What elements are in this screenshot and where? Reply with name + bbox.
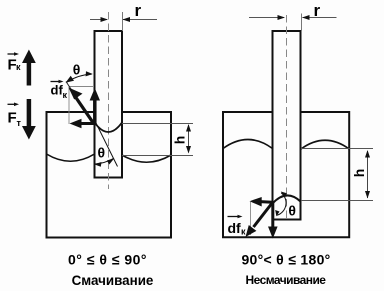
svg-text:r: r [314,1,321,20]
capillary tube (right) [273,31,301,220]
svg-text:Несмачивание: Несмачивание [246,273,327,287]
vertical component arrow (right, down along tube wall) [271,203,274,228]
h top extension line (right) [301,148,373,150]
tube centerline (right, dashed) [286,15,288,218]
svg-text:df: df [228,220,242,236]
r dimension line right segment (right) [303,17,337,19]
r dimension line left segment (right) [249,17,284,19]
h dimension line (left) [188,125,190,153]
lower theta angle arc (left) [95,159,113,164]
svg-text:F: F [8,110,17,127]
svg-text:к: к [241,227,246,237]
theta angle arc (right) [277,193,286,216]
h dimension line (right) [367,151,369,198]
h bottom extension line (right) [301,200,373,202]
svg-text:0° ≤ θ ≤ 90°: 0° ≤ θ ≤ 90° [68,251,147,267]
water surface arc left-of-tube (left vessel) [47,154,95,161]
svg-text:90°< θ ≤ 180°: 90°< θ ≤ 180° [241,251,330,267]
vector df_k (right, thick diagonal down-left arrow) [254,203,273,228]
upper theta angle arc (left) [67,74,92,82]
component rectangle construction lines (left) [69,86,94,88]
r dimension line left segment [90,19,107,21]
df_k extension thin line (left) [66,82,94,125]
svg-text:к: к [63,90,68,100]
svg-text:θ: θ [73,61,81,77]
component construction line (right, vertical) [250,202,252,235]
svg-text:к: к [16,62,21,72]
vessel (left container) [47,112,172,238]
vector F_t (big down arrow) [27,99,32,126]
svg-text:Смачивание: Смачивание [72,273,154,288]
horizontal component arrow (right, pointing left) [260,200,273,204]
svg-text:r: r [135,1,142,20]
vertical component arrow (left, up along tube wall) [93,100,97,125]
vector df_k (left, thick diagonal arrow) [75,96,95,125]
tube centerline (left, dashed) [108,12,110,189]
water surface arc right-of-tube (left vessel) [122,155,171,162]
horizontal component arrow (left, pointing left) [80,122,94,125]
capillary tube (left) [95,31,123,178]
vessel (right container) [223,112,349,237]
water surface dome left-of-tube (right vessel) [223,140,273,149]
meniscus in tube (right, convex dome) [273,195,301,203]
h top extension line (left) [122,123,193,125]
svg-text:θ: θ [288,203,296,219]
svg-text:h: h [351,169,367,178]
vector F_k (big up arrow) [27,60,32,86]
r extension line above tube right edge (right) [301,14,303,32]
water surface dome right-of-tube (right vessel) [301,140,349,149]
svg-text:h: h [172,136,188,145]
tangent line at lower meniscus contact (left) [95,121,118,167]
svg-text:df: df [51,83,64,98]
r dimension line right segment [123,19,157,21]
svg-text:т: т [17,118,22,128]
meniscus in tube (left, concave) [95,123,123,133]
r extension line above tube right edge [122,12,124,31]
svg-text:θ: θ [98,145,106,161]
h bottom extension line (left) [122,155,193,157]
